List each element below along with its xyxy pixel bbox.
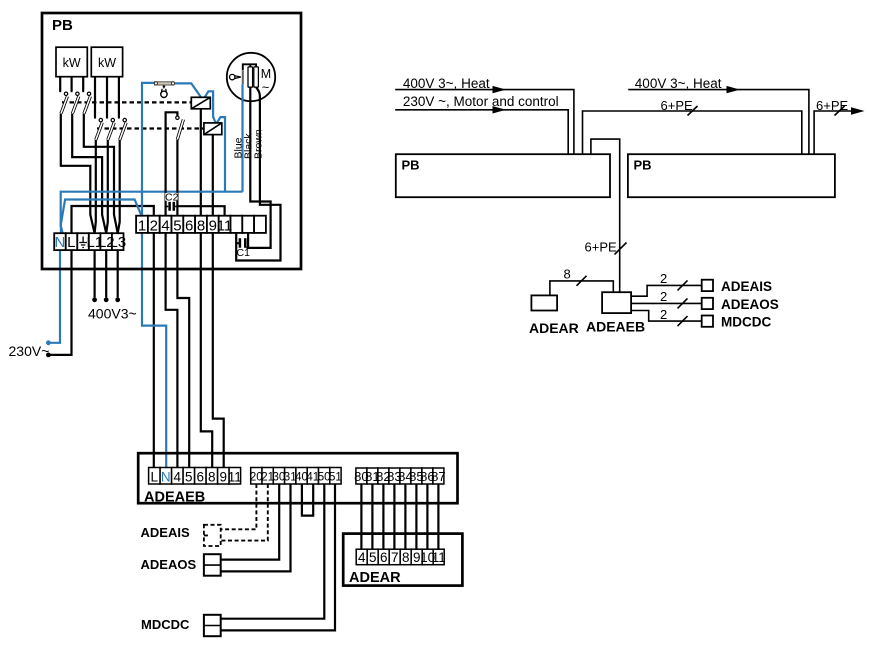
wire terminal 5 link to terminal 11 — [177, 206, 224, 216]
svg-text:4: 4 — [174, 469, 182, 484]
wire 6+PE PB1 down to ADEAEB — [591, 139, 620, 292]
wire L1 L2 L3 stubs to 400V dots — [95, 250, 118, 297]
PB enclosure box — [42, 13, 301, 269]
ADEAR box — [343, 534, 462, 586]
ADEAR small box — [531, 295, 557, 310]
wire 6+PE out of PB2 — [814, 111, 855, 154]
svg-text:2: 2 — [150, 217, 158, 234]
svg-text:PB: PB — [634, 158, 652, 173]
svg-text:7: 7 — [391, 550, 399, 565]
svg-text:ADEAOS: ADEAOS — [141, 557, 197, 572]
wire contactor K2 outputs to L1 L2 L3 — [95, 140, 96, 233]
svg-text:2: 2 — [660, 289, 667, 304]
svg-text:6+PE: 6+PE — [585, 240, 617, 255]
svg-text:Brown: Brown — [253, 129, 265, 159]
svg-text:4: 4 — [161, 217, 169, 234]
ADEAEB small box — [602, 292, 631, 313]
coil K1 — [191, 97, 210, 109]
wire blue thermostat to coil K1 — [175, 83, 201, 97]
wire 50 to MDCDC — [221, 484, 325, 619]
wire blue coil K1 hop to coil K2 — [205, 91, 216, 123]
wire blue N down to 230V supply dot — [51, 250, 61, 343]
svg-text:N: N — [54, 234, 65, 251]
wire terminal 5 down to ADEAEB 5 — [177, 233, 189, 469]
ADEAEB strip 20 21 30 31 40 41 50 51 — [250, 468, 342, 485]
svg-text:MDCDC: MDCDC — [721, 315, 771, 330]
svg-text:11: 11 — [432, 550, 446, 565]
svg-text:11: 11 — [217, 217, 233, 234]
wire blue neutral from thermostat through terminal 1 to ADEAEB N — [142, 83, 166, 469]
svg-text:6+PE: 6+PE — [661, 98, 693, 113]
svg-text:PB: PB — [52, 17, 73, 34]
connector ADEAIS square — [702, 280, 713, 291]
connector ADEAOS square — [702, 298, 713, 309]
ADEAR strip 4-11 — [356, 549, 446, 565]
wire motor black to C1 right — [247, 87, 271, 248]
svg-text:ADEAEB: ADEAEB — [144, 490, 205, 506]
svg-text:6+PE: 6+PE — [816, 98, 848, 113]
svg-text:230V ~, Motor and control: 230V ~, Motor and control — [403, 94, 559, 109]
wire ADEAEB to ADEAOS — [631, 302, 702, 304]
svg-text:87: 87 — [431, 469, 445, 484]
svg-text:ADEAR: ADEAR — [349, 570, 401, 586]
wire 31 to ADEAOS — [221, 484, 291, 571]
heater kW 1 — [56, 47, 87, 76]
svg-text:8: 8 — [402, 550, 410, 565]
node 230V N — [46, 340, 51, 345]
ADEAEB strip L N 4 5 6 8 9 11 — [149, 468, 242, 485]
ADEAEB controller box — [138, 453, 457, 503]
wire coil K1 to terminal 8 — [200, 109, 202, 216]
svg-text:400V3~: 400V3~ — [88, 306, 137, 322]
wire 230V feed into PB1 — [395, 110, 568, 154]
wire dashed 20 to ADEAIS — [221, 484, 257, 529]
wire 51 to MDCDC — [221, 484, 335, 630]
svg-text:51: 51 — [329, 472, 342, 484]
svg-text:400V 3~, Heat: 400V 3~, Heat — [403, 76, 490, 91]
wire blue jumper N to terminal 1 — [61, 200, 142, 234]
svg-text:9: 9 — [209, 217, 217, 234]
wire jumper 40-41 — [302, 484, 313, 516]
wire terminal 8 down to ADEAEB 8 — [201, 233, 212, 469]
svg-text:L: L — [67, 234, 75, 251]
wire 400V feed into PB2 — [628, 90, 809, 155]
wire terminal 9 down to ADEAEB 9 — [213, 233, 224, 469]
svg-text:6: 6 — [197, 469, 205, 484]
wire spare terminal b to C1 — [247, 233, 249, 248]
svg-text:ADEAOS: ADEAOS — [721, 297, 779, 312]
wire dashed 21 to ADEAIS — [221, 484, 268, 541]
svg-text:6: 6 — [380, 550, 388, 565]
node 400V phase dots — [92, 297, 97, 302]
svg-text:~: ~ — [262, 80, 270, 95]
wire motor brown to C1 left — [236, 87, 280, 260]
wire dashed link contactor K1 — [62, 101, 191, 103]
PB unit 2 box — [628, 154, 835, 197]
connector MDCDC square — [702, 316, 713, 327]
sensor ADEAIS box dashed — [204, 525, 221, 546]
slash vertical cable — [615, 243, 627, 255]
wire kW1 leads — [60, 77, 83, 92]
svg-text:4: 4 — [358, 550, 366, 565]
wire blue coil K2 hop to neutral rail — [217, 117, 225, 192]
svg-text:9: 9 — [220, 469, 228, 484]
contact K2 pole — [108, 118, 115, 139]
motor M1 — [227, 53, 275, 102]
capacitor C1 — [237, 238, 251, 259]
wire L down to 230V supply dot — [51, 250, 72, 355]
wire dashed link contactor K2 — [97, 127, 204, 129]
svg-text:5: 5 — [369, 550, 377, 565]
svg-text:8: 8 — [197, 217, 205, 234]
svg-text:L3: L3 — [110, 234, 127, 251]
wire 30 to ADEAOS — [221, 484, 280, 560]
terminal strip N L earth L1 L2 L3 — [54, 233, 126, 251]
svg-text:400V 3~, Heat: 400V 3~, Heat — [635, 76, 722, 91]
svg-text:2: 2 — [660, 271, 667, 286]
svg-text:ADEAEB: ADEAEB — [586, 319, 645, 335]
terminal strip 1 2 4 5 6 8 9 11 — [136, 216, 266, 235]
slash mid cable — [688, 106, 698, 116]
wire ADEAR to ADEAEB 8-core — [550, 281, 613, 296]
svg-text:L: L — [151, 469, 159, 484]
wire blue motor lead — [241, 85, 243, 192]
wire blue neutral rail to N terminal — [61, 192, 243, 234]
slash 8-core — [577, 276, 587, 286]
contact relay terminals 4-5 — [166, 112, 184, 215]
thermostat overheat cutout — [154, 82, 174, 98]
svg-text:6: 6 — [185, 217, 193, 234]
wire terminal 2 down to ADEAEB L — [153, 233, 155, 469]
svg-text:ADEAIS: ADEAIS — [721, 279, 772, 294]
slash out cable — [835, 106, 845, 116]
svg-text:2: 2 — [660, 307, 667, 322]
node 230V L — [46, 353, 51, 358]
svg-text:ADEAIS: ADEAIS — [141, 525, 190, 540]
svg-text:5: 5 — [173, 217, 181, 234]
contact K2 pole — [120, 118, 127, 139]
wire 400V feed into PB1 — [395, 90, 574, 155]
wire contactor K1 outputs to L1 L2 L3 — [61, 114, 95, 234]
wire ADEAEB to MDCDC — [631, 311, 702, 322]
svg-text:11: 11 — [228, 469, 242, 484]
sensor MDCDC box — [204, 615, 221, 636]
svg-text:5: 5 — [185, 469, 193, 484]
coil K2 — [204, 123, 222, 135]
heater kW 2 — [91, 47, 122, 76]
wire spare terminal a to C1 — [236, 233, 239, 243]
wire kW2 leads — [95, 77, 119, 118]
wires 80-87 to ADEAR — [360, 484, 362, 549]
svg-text:C1: C1 — [237, 247, 251, 259]
svg-text:ADEAR: ADEAR — [529, 320, 579, 336]
contact K1 pole — [61, 92, 68, 113]
wire coil K2 to terminal 9 — [212, 135, 214, 216]
svg-text:PB: PB — [402, 158, 420, 173]
capacitor C2 — [165, 192, 179, 211]
wire 6+PE PB1 to PB2 — [583, 111, 802, 154]
svg-text:kW: kW — [63, 56, 81, 70]
svg-text:MDCDC: MDCDC — [141, 617, 190, 632]
wire terminal 4 down to ADEAEB 4 — [166, 233, 178, 469]
wire ADEAEB to ADEAIS — [631, 285, 702, 296]
contact K1 pole — [72, 92, 79, 113]
svg-text:8: 8 — [208, 469, 216, 484]
PB unit 1 box — [396, 154, 610, 197]
svg-text:8: 8 — [564, 267, 571, 282]
contact K2 pole — [96, 118, 103, 139]
wire jumper L to terminal 2 — [72, 206, 154, 233]
svg-text:1: 1 — [138, 217, 146, 234]
svg-text:kW: kW — [98, 56, 116, 70]
sensor ADEAOS box — [204, 554, 221, 576]
svg-text:C2: C2 — [165, 192, 179, 204]
svg-text:N: N — [161, 469, 171, 484]
ADEAEB strip 80-87 — [354, 468, 445, 484]
contact K1 pole — [84, 92, 91, 113]
svg-text:230V~: 230V~ — [9, 343, 50, 359]
